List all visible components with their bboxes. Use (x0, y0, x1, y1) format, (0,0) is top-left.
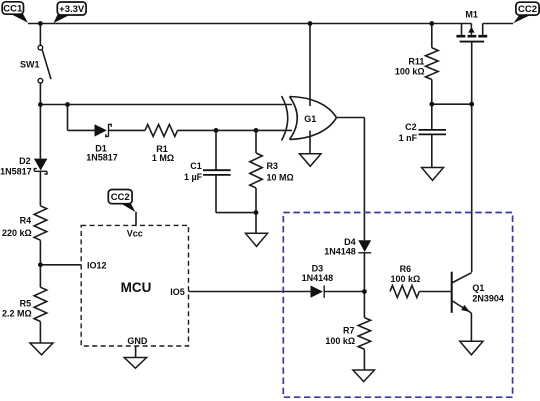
svg-text:SW1: SW1 (20, 60, 40, 70)
svg-text:100 kΩ: 100 kΩ (395, 67, 425, 77)
svg-text:D3: D3 (312, 263, 324, 273)
svg-text:C2: C2 (405, 122, 417, 132)
svg-text:D4: D4 (344, 237, 356, 247)
svg-text:2N3904: 2N3904 (472, 293, 504, 303)
svg-text:1 µF: 1 µF (184, 172, 203, 182)
svg-text:100 kΩ: 100 kΩ (325, 336, 355, 346)
svg-text:1 MΩ: 1 MΩ (152, 153, 174, 163)
svg-text:1 nF: 1 nF (399, 133, 418, 143)
svg-text:R3: R3 (267, 161, 279, 171)
svg-text:MCU: MCU (121, 280, 152, 295)
svg-text:2.2 MΩ: 2.2 MΩ (2, 308, 32, 318)
svg-text:CC2: CC2 (111, 192, 130, 203)
svg-text:C1: C1 (190, 161, 202, 171)
svg-text:R11: R11 (408, 56, 424, 66)
svg-text:IO12: IO12 (87, 261, 107, 271)
svg-text:R7: R7 (343, 326, 355, 336)
svg-text:GND: GND (127, 336, 148, 346)
svg-text:R4: R4 (20, 215, 32, 225)
svg-text:Vcc: Vcc (127, 229, 143, 239)
svg-text:100 kΩ: 100 kΩ (391, 274, 421, 284)
svg-text:IO5: IO5 (170, 287, 185, 297)
svg-text:M1: M1 (465, 9, 478, 19)
svg-text:R5: R5 (20, 298, 32, 308)
svg-text:D2: D2 (19, 156, 31, 166)
svg-text:Q1: Q1 (472, 283, 484, 293)
svg-text:220 kΩ: 220 kΩ (2, 228, 32, 238)
svg-text:CC2: CC2 (518, 4, 537, 15)
svg-text:1N4148: 1N4148 (302, 273, 334, 283)
svg-text:10 MΩ: 10 MΩ (267, 173, 294, 183)
svg-text:CC1: CC1 (3, 4, 23, 15)
svg-text:1N5817: 1N5817 (0, 166, 32, 176)
svg-text:+3.3V: +3.3V (59, 4, 85, 15)
svg-text:1N4148: 1N4148 (324, 247, 356, 257)
svg-text:R6: R6 (400, 264, 412, 274)
svg-text:1N5817: 1N5817 (86, 153, 118, 163)
svg-text:G1: G1 (304, 114, 316, 124)
